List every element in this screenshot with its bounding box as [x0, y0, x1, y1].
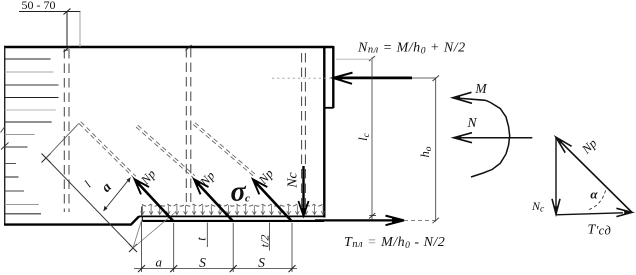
bottom dimension line	[134, 268, 297, 270]
lc extension line	[371, 58, 373, 222]
svg-text:с: с	[245, 192, 250, 204]
lc top tick	[369, 56, 375, 61]
svg-text:Nс: Nс	[286, 171, 301, 188]
masonry hatch lines	[5, 59, 59, 214]
extension line a left	[141, 222, 143, 272]
extension line load1	[173, 223, 175, 272]
support plate left edge	[141, 216, 143, 221]
support tab bottom	[325, 107, 334, 109]
svg-text:Nр: Nр	[578, 136, 599, 157]
force arrow Np3	[253, 179, 292, 221]
wall bottom-left edge	[4, 216, 139, 224]
extension line load3	[291, 223, 293, 272]
t mark line	[206, 223, 208, 248]
joint dashed pair left	[64, 49, 69, 212]
support tab right edge	[332, 46, 334, 108]
oblique extension to first load point	[133, 213, 175, 249]
bearing stress ticks	[141, 205, 325, 214]
dim tick 3	[230, 265, 237, 272]
band upper-left edge	[46, 124, 79, 159]
oblique extension to strip edge	[133, 221, 142, 249]
band crack dashed pair	[79, 122, 136, 178]
svg-text:lс: lс	[356, 132, 372, 140]
extension line load2	[232, 223, 234, 272]
moment curve	[471, 100, 510, 177]
wall edge break tick	[1, 143, 9, 150]
X marker upper	[42, 154, 51, 163]
dimension 50-70 tick top	[64, 9, 71, 15]
force arrow Np1	[135, 179, 174, 221]
Tpl level dashed line	[404, 219, 437, 221]
band width arrowhead lower	[104, 206, 108, 211]
Npl level dotted line	[272, 77, 333, 79]
svg-text:S: S	[258, 255, 265, 270]
moment arrow M	[453, 92, 486, 103]
dimension 50-70 extension line dark	[66, 12, 68, 52]
svg-text:S: S	[199, 255, 206, 270]
force arrow Nc	[298, 166, 308, 216]
t2 mark line	[269, 223, 271, 251]
svg-text:α: α	[590, 187, 598, 202]
lc bottom tick	[369, 213, 376, 219]
wall top edge	[4, 46, 334, 48]
top line tick at middle joint	[186, 45, 192, 51]
band width arrowhead upper	[127, 178, 131, 183]
wall left edge	[4, 47, 6, 225]
h0 extension line	[435, 78, 437, 221]
bearing surface line	[139, 215, 325, 217]
svg-text:t: t	[195, 237, 209, 241]
dim tick 2	[170, 265, 177, 272]
force arrow Np2	[194, 179, 233, 221]
support plate bottom	[143, 220, 325, 222]
svg-text:Nс: Nс	[531, 199, 545, 215]
dim tick 4	[289, 265, 296, 272]
triangle hypotenuse Np	[556, 137, 632, 212]
angle alpha arc	[589, 188, 607, 210]
triangle left side Nc	[552, 137, 560, 214]
h0 bottom tick	[433, 218, 440, 224]
dimension 50-70 tick bottom	[64, 46, 71, 52]
joint dashed pair middle	[186, 48, 191, 202]
wall right edge	[323, 47, 325, 218]
svg-text:а: а	[99, 180, 115, 195]
svg-text:50 - 70: 50 - 70	[22, 0, 56, 12]
gray link line top	[336, 58, 372, 60]
dim tick 1	[138, 265, 145, 272]
svg-text:Tпл = M/h0 - N/2: Tпл = M/h0 - N/2	[344, 235, 445, 251]
svg-text:l: l	[81, 178, 94, 191]
svg-text:hо: hо	[418, 146, 434, 157]
force arrow N	[454, 133, 533, 143]
bearing strip left edge	[141, 207, 143, 217]
force arrow Tpl right	[315, 216, 404, 226]
svg-text:t/2: t/2	[258, 235, 272, 248]
Npl level thin line	[412, 77, 436, 79]
h0 top tick	[433, 76, 440, 82]
X marker lower	[129, 244, 137, 252]
crack dashed pair A	[136, 125, 195, 177]
wall edge break tick upper	[1, 127, 5, 133]
bearing stress scalloped line	[142, 204, 323, 206]
crack dashed pair B	[193, 123, 255, 177]
svg-text:Nпл = M/h0 + N/2: Nпл = M/h0 + N/2	[357, 41, 466, 57]
svg-text:T′сд: T′сд	[588, 222, 612, 237]
svg-text:N: N	[466, 115, 477, 130]
force arrow Npl left	[333, 73, 412, 84]
dimension 50-70 extension line gray	[79, 12, 81, 48]
incline dimension line l	[46, 158, 133, 248]
svg-text:a: a	[156, 255, 163, 270]
dimension 50-70 line	[19, 11, 81, 13]
joint dashed pair right	[302, 53, 306, 210]
triangle bottom side Tsd	[556, 208, 632, 216]
band width dimension a	[104, 178, 131, 212]
svg-text:M: M	[474, 81, 487, 96]
